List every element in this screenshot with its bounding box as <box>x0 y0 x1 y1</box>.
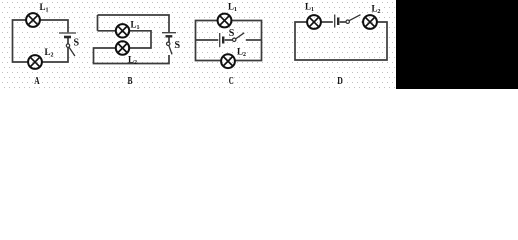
svg-text:A: A <box>34 76 40 87</box>
svg-text:B: B <box>128 76 133 87</box>
svg-text:S: S <box>74 38 80 49</box>
svg-text:D: D <box>337 76 343 87</box>
svg-text:S: S <box>175 40 181 51</box>
svg-text:S: S <box>229 28 235 39</box>
svg-text:C: C <box>229 76 234 87</box>
